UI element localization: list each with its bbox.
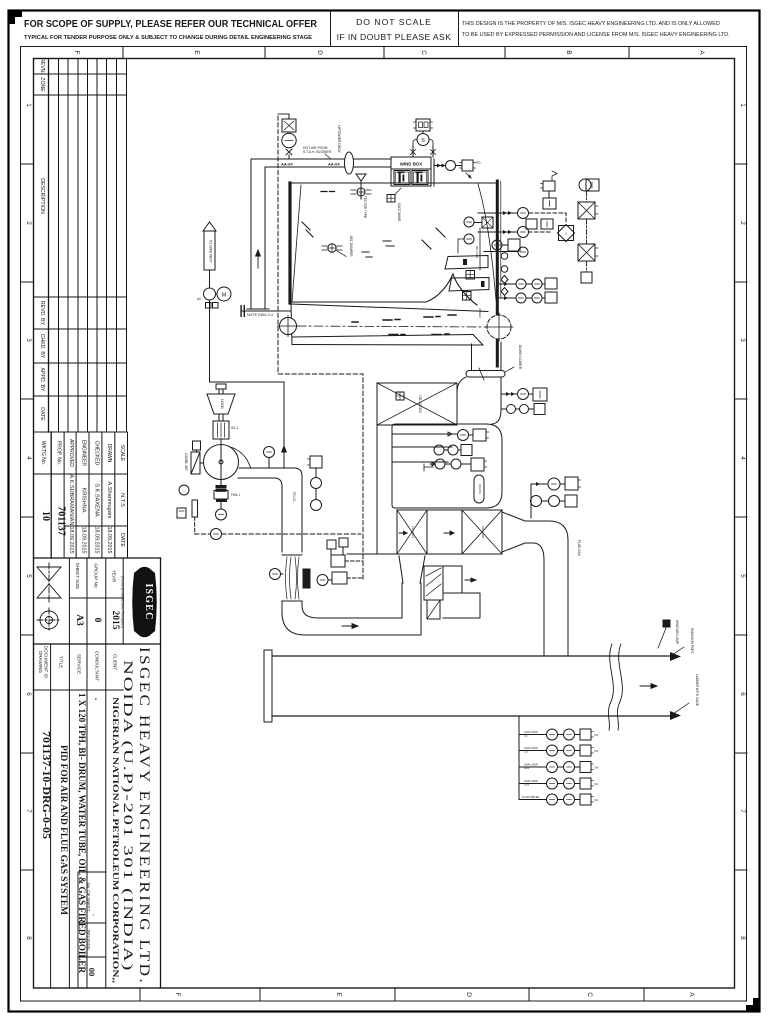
svg-text:18.09.2015: 18.09.2015 <box>106 527 112 554</box>
svg-text:IF IN DOUBT PLEASE ASK: IF IN DOUBT PLEASE ASK <box>337 32 452 42</box>
svg-text:FD-01: FD-01 <box>292 492 296 502</box>
interlock square X 2 <box>578 244 595 261</box>
svg-text:DA: DA <box>595 798 599 802</box>
SCAPH capsule <box>474 475 484 503</box>
instrument: furnace pressure circle a <box>464 217 474 227</box>
svg-text:NOTE DWG 2-4: NOTE DWG 2-4 <box>247 313 273 317</box>
downcomer from mud drum <box>500 342 502 371</box>
svg-text:F: F <box>73 51 80 55</box>
duct: blind branch to future (left drop) <box>250 159 252 309</box>
expansion joint on top duct <box>345 152 354 174</box>
svg-text:S.T.A.H. BLOWER: S.T.A.H. BLOWER <box>303 150 332 154</box>
instrument: lower-right row2 circles <box>507 405 516 414</box>
svg-text:B: B <box>565 50 572 54</box>
svg-text:1 X 120 TPH, BI- DRUM, WATER T: 1 X 120 TPH, BI- DRUM, WATER TUBE, OIL &… <box>77 693 87 973</box>
svg-text:SIL-1: SIL-1 <box>231 426 239 430</box>
air outlet duct lines <box>462 592 480 594</box>
instrument: furnace square a <box>482 217 493 228</box>
instrument: lower-right row2 square <box>534 404 545 415</box>
furnace left tube wall line <box>292 185 301 302</box>
expansion joint below boiler <box>466 371 505 378</box>
superheater bank box 1 <box>445 256 488 270</box>
title block column labels <box>38 646 118 682</box>
instrument: AH outlet row2 square <box>565 495 577 507</box>
node: valve positioner squares <box>206 303 212 309</box>
svg-text:(Formerly ISGEC John Thompson): (Formerly ISGEC John Thompson) <box>121 576 125 628</box>
right wall inner line <box>500 181 502 297</box>
svg-text:7: 7 <box>739 809 746 813</box>
svg-text:ANALYSER: ANALYSER <box>524 763 538 767</box>
instrument grid row 5 <box>519 799 547 801</box>
svg-text:1: 1 <box>739 103 746 107</box>
svg-text:ANALYSER: ANALYSER <box>524 779 538 783</box>
svg-text:S: S <box>421 138 425 144</box>
svg-text:DA: DA <box>595 733 599 737</box>
instrument: flag stem 2 <box>339 538 348 547</box>
burner box 2 <box>412 171 428 185</box>
instrument: row y284 square <box>545 278 557 289</box>
svg-text:DESCRIPTION: DESCRIPTION <box>39 178 45 214</box>
instrument: right col bottom square <box>581 272 592 283</box>
svg-text:LADDER WITH CAGE: LADDER WITH CAGE <box>695 674 699 706</box>
svg-text:A: A <box>698 50 705 55</box>
svg-text:SHEET SIZE: SHEET SIZE <box>75 563 80 590</box>
instrument: AH outlet row1 circle <box>548 478 560 490</box>
projection symbol <box>37 563 61 632</box>
svg-text:18.09.2015: 18.09.2015 <box>81 527 87 554</box>
air heater centre box <box>427 510 462 554</box>
signal: dashed line to silencer instruments <box>195 533 361 535</box>
instrument: AH row2 circles <box>434 445 444 455</box>
svg-text:4: 4 <box>25 456 32 460</box>
FD fan air inlet cap <box>216 384 226 389</box>
instrument: square B near silencer <box>332 572 347 584</box>
instrument: square 2 <box>548 191 550 198</box>
air heater internal lines <box>392 433 457 435</box>
svg-text:TITLE: TITLE <box>59 656 64 669</box>
svg-text:C: C <box>586 992 593 997</box>
sheet/revision boxes <box>86 883 97 977</box>
valve tick left <box>411 150 416 155</box>
diagonal tube sheet step <box>473 335 483 346</box>
svg-text:NOx: NOx <box>524 766 530 770</box>
burner box 1 <box>394 171 410 185</box>
svg-text:EMISSION PORT: EMISSION PORT <box>690 628 694 653</box>
FD fan inlet silencer <box>213 421 229 439</box>
corner mark top-left <box>9 11 22 24</box>
wall taps: small circles/diamonds <box>501 253 508 260</box>
svg-text:D: D <box>316 50 323 55</box>
instrument: top square with flag <box>543 181 555 191</box>
node: left stub end bars <box>240 305 241 317</box>
wind box <box>391 157 431 186</box>
wire: AH outlet leaders <box>531 484 548 518</box>
svg-text:DRAWN: DRAWN <box>106 444 112 463</box>
svg-text:DRAWING: DRAWING <box>38 651 43 673</box>
svg-text:PID FOR AIR AND FLUE GAS SYSTE: PID FOR AIR AND FLUE GAS SYSTEM <box>58 745 68 915</box>
instrument: purge square with wings <box>462 160 473 171</box>
air heater main box <box>392 424 502 508</box>
svg-text:SCAPH: SCAPH <box>478 484 482 494</box>
wire: flow arrow in bottom duct <box>342 624 358 629</box>
svg-text:NIGERIAN NATIONAL PETROLEUM CO: NIGERIAN NATIONAL PETROLEUM CORPORATION,… <box>111 697 121 983</box>
instrument grid row 4 <box>519 783 547 785</box>
svg-text:F: F <box>174 993 181 997</box>
svg-text:A.K.SUBRAMANIAN: A.K.SUBRAMANIAN <box>68 475 74 526</box>
superheater bank box 2 <box>449 278 489 292</box>
svg-text:GROUP No:: GROUP No: <box>94 563 99 588</box>
sootblower cross square 2 <box>463 292 472 301</box>
instrument: left gauge <box>179 485 189 495</box>
svg-text:M: M <box>222 293 227 299</box>
approvals values <box>40 475 125 554</box>
instrument: flag stem 1 <box>327 540 336 549</box>
svg-text:CONSULTANT: CONSULTANT <box>95 651 100 682</box>
svg-text:CHKD. BY: CHKD. BY <box>39 334 45 359</box>
stack cap <box>264 650 272 722</box>
svg-text:-: - <box>90 914 96 916</box>
instrument: small box far left <box>177 508 186 518</box>
svg-text:GD-102/103: GD-102/103 <box>418 395 422 413</box>
instrument: row y298 circle 1 <box>516 293 526 303</box>
svg-text:2: 2 <box>739 221 746 225</box>
svg-text:HOOD: HOOD <box>220 399 224 409</box>
wire: leader from wall 1 <box>478 212 518 214</box>
air heater element box X right <box>462 510 502 554</box>
instrument: circle near silencer <box>317 575 328 586</box>
svg-text:8: 8 <box>739 936 746 940</box>
wire: leader lower-right <box>501 393 518 395</box>
svg-text:8: 8 <box>25 936 32 940</box>
svg-text:AA-04: AA-04 <box>328 162 340 167</box>
instrument: AH row3 square <box>471 458 484 471</box>
instrument: circle at silencer left <box>270 569 281 580</box>
wire: leader from wall 2 <box>478 231 518 233</box>
wire: leader row y284 <box>499 283 516 285</box>
svg-text:UPTOWER DECK: UPTOWER DECK <box>337 125 341 153</box>
instrument: draft circle 2 <box>518 227 529 238</box>
interlock square X 1 <box>578 202 595 219</box>
left coordinate strip dividers <box>21 164 34 870</box>
bottom strip letters <box>174 992 695 997</box>
instrument: row y284 circle 2 <box>532 279 542 289</box>
svg-text:WKTG No.: WKTG No. <box>40 441 46 465</box>
tube group dashes lower <box>389 333 449 336</box>
instrument: AH row1 arrow+circle <box>443 432 452 436</box>
instrument: row y284 circle 1 <box>516 279 526 289</box>
svg-text:WIND BOX: WIND BOX <box>400 162 423 167</box>
FD fan motor coupling <box>216 486 226 488</box>
furnace tap: funnel symbol <box>356 174 366 181</box>
instrument: lower-right square <box>533 388 547 401</box>
svg-text:SOOT BLWR: SOOT BLWR <box>397 203 401 223</box>
svg-text:ISGEC: ISGEC <box>143 583 154 620</box>
instrument grid row 3 <box>519 766 547 768</box>
instrument: row y298 circle 2 <box>532 293 542 303</box>
instrument: AH outlet row1 square <box>565 477 578 490</box>
svg-text:DOCUMENT ID: DOCUMENT ID <box>44 646 49 679</box>
instrument: vent valve actuator circle <box>282 133 296 147</box>
svg-text:0: 0 <box>92 618 102 623</box>
svg-text:6: 6 <box>739 692 746 696</box>
signal: dashed to interlock diamond <box>529 213 566 224</box>
instrument: PI squares right of discharge <box>310 456 322 468</box>
svg-text:4: 4 <box>739 456 746 460</box>
svg-text:AV: AV <box>197 297 202 301</box>
mud drum (right) <box>487 315 511 339</box>
corner mark bottom-right <box>746 998 759 1011</box>
svg-text:A.Shanmugam: A.Shanmugam <box>106 481 112 518</box>
stack shell <box>272 655 670 657</box>
wire: wind box purge line right <box>434 165 446 167</box>
instrument: fan speed circle <box>216 509 227 520</box>
svg-text:FOR SCOPE OF SUPPLY, PLEASE RE: FOR SCOPE OF SUPPLY, PLEASE REFER OUR TE… <box>24 19 317 30</box>
duct: FD duct bottom run to air heater <box>282 601 421 635</box>
svg-text:FLOW METER: FLOW METER <box>522 795 539 799</box>
instrument: lower-right circle <box>518 389 529 400</box>
furnace bottom / nose <box>291 274 477 305</box>
furnace tap: crossed square <box>387 195 395 203</box>
instrument: AH row3 circles <box>435 459 445 469</box>
svg-text:1: 1 <box>25 103 32 107</box>
wire: flow arrow up on riser <box>282 446 287 452</box>
valve tick right <box>431 150 436 155</box>
svg-text:5: 5 <box>25 574 32 578</box>
svg-text:701137: 701137 <box>56 506 67 535</box>
svg-text:SCALE: SCALE <box>119 445 125 462</box>
svg-text:AH-101B: AH-101B <box>481 526 485 538</box>
air outlet box B <box>443 566 462 593</box>
aviation lamp <box>663 620 670 627</box>
signal: dash-dot down <box>586 191 588 202</box>
svg-text:YEAR: YEAR <box>112 570 117 583</box>
instrument: AH row2 square <box>461 445 472 456</box>
solenoid circle S <box>413 140 433 147</box>
right strip numbers <box>739 103 746 940</box>
svg-text:AH-101A: AH-101A <box>411 526 415 538</box>
revision table labels <box>39 58 45 421</box>
top coordinate strip dividers <box>123 47 629 59</box>
rear screen tube curve <box>478 184 496 300</box>
FD fan motor <box>214 491 228 500</box>
svg-text:ANALYSER: ANALYSER <box>524 746 538 750</box>
vent silencer assembly (left) <box>203 222 216 231</box>
wire: flow arrow up in branch <box>256 250 261 268</box>
steam drum (left) <box>280 318 297 335</box>
svg-text:A: A <box>688 992 695 997</box>
valve PV-1: vent control valve <box>278 113 289 115</box>
pipe: vent riser to FD discharge <box>210 300 285 468</box>
svg-text:00: 00 <box>87 968 97 977</box>
pressure gauge on discharge <box>264 447 275 458</box>
svg-text:SOx: SOx <box>524 783 530 787</box>
approvals table grid <box>34 432 161 558</box>
svg-text:NOIDA (U.P)-201 301 (INDIA): NOIDA (U.P)-201 301 (INDIA) <box>121 660 135 972</box>
title block header labels <box>75 563 117 590</box>
FD fan discharge duct <box>239 468 302 552</box>
air heater hopper <box>399 556 403 583</box>
svg-text:SEC DAMPER: SEC DAMPER <box>349 235 353 257</box>
sootblower cross square 1 <box>466 271 475 280</box>
svg-text:AA-04: AA-04 <box>281 162 293 167</box>
instrument: draft circle 1 <box>518 208 529 219</box>
svg-text:RISER: RISER <box>478 308 482 318</box>
svg-text:SERVICE: SERVICE <box>77 654 82 674</box>
svg-text:TECTOR TYPE: TECTOR TYPE <box>363 196 367 218</box>
air outlet lower damper <box>427 600 440 619</box>
instrument grid row 2 <box>519 750 547 752</box>
top strip letters <box>73 50 705 55</box>
wire: flow arrow in stack <box>640 684 657 689</box>
boiler bank bottom boundary <box>292 335 473 338</box>
svg-text:REVN.: REVN. <box>39 58 45 74</box>
svg-text:2015: 2015 <box>110 611 120 630</box>
wire: leader row y298 <box>499 297 516 299</box>
svg-text:No. OF SHEET: No. OF SHEET <box>86 883 91 912</box>
svg-text:DA: DA <box>595 782 599 786</box>
svg-text:DO NOT SCALE: DO NOT SCALE <box>356 17 432 27</box>
svg-text:2: 2 <box>25 221 32 225</box>
svg-text:I: I <box>565 231 566 236</box>
damper positioner block <box>192 500 198 517</box>
instrument: right col circle+square <box>579 179 591 191</box>
gas damper box with X <box>377 383 457 425</box>
svg-text:DATE: DATE <box>119 533 125 547</box>
svg-text:CLIENT: CLIENT <box>113 654 118 671</box>
svg-text:OIL GUN: OIL GUN <box>475 246 479 258</box>
title block values <box>40 647 152 985</box>
svg-text:701137-10-DRG-0-05: 701137-10-DRG-0-05 <box>40 731 51 839</box>
line: air heater inlet run <box>347 553 397 555</box>
instrument: draft circle 3 <box>518 247 528 257</box>
svg-text:TO SAFE VENT: TO SAFE VENT <box>209 240 213 263</box>
valve: vent isolation valve <box>204 288 216 300</box>
signal: dash-dot to bottom square <box>586 261 588 272</box>
svg-text:APPD. BY: APPD. BY <box>39 368 45 392</box>
svg-text:3: 3 <box>739 338 746 342</box>
svg-text:ENGINEER: ENGINEER <box>81 440 87 467</box>
duct: riser into air heater hopper <box>401 583 403 618</box>
svg-text:DA: DA <box>595 766 599 770</box>
svg-text:CHECKED: CHECKED <box>94 441 100 466</box>
svg-text:DOWN COMER: DOWN COMER <box>518 345 522 370</box>
valve glyph below actuator <box>286 149 292 155</box>
svg-text:ANALYSER: ANALYSER <box>524 730 538 734</box>
svg-text:APPROVED: APPROVED <box>68 439 74 467</box>
instrument: square m1 <box>526 219 537 229</box>
svg-text:KRISHNA: KRISHNA <box>81 488 87 513</box>
svg-text:ZONE: ZONE <box>39 77 45 92</box>
svg-text:7: 7 <box>25 809 32 813</box>
left casing wall <box>376 425 378 554</box>
svg-text:AVIATION LAMP: AVIATION LAMP <box>675 620 679 644</box>
furnace flame hatches <box>302 222 313 237</box>
tube group dashes upper <box>352 315 456 322</box>
wire: arrow right of damper <box>465 578 476 582</box>
label: black tag plate <box>303 569 310 588</box>
instrument: row y298 square <box>545 292 557 303</box>
svg-text:3: 3 <box>25 338 32 342</box>
instrument: furnace pressure circle b <box>464 234 474 244</box>
boiler right wall (thick) <box>496 181 499 366</box>
svg-text:N.T.S: N.T.S <box>119 493 125 507</box>
header divider lines <box>330 11 332 46</box>
title block grid <box>34 558 161 988</box>
svg-text:-: - <box>92 698 102 701</box>
svg-text:A3: A3 <box>74 614 84 626</box>
instrument: AH row1 square <box>473 429 486 441</box>
stack break lines <box>608 644 613 730</box>
svg-text:DA: DA <box>595 749 599 753</box>
instrument: square A near silencer <box>331 555 345 567</box>
svg-text:E: E <box>193 50 200 54</box>
damper: FD inlet damper <box>191 452 200 474</box>
svg-text:REVD. BY: REVD. BY <box>39 301 45 326</box>
svg-text:PROP. No.: PROP. No. <box>56 441 62 465</box>
approvals labels <box>40 439 125 467</box>
svg-text:5: 5 <box>739 574 746 578</box>
svg-text:DATE: DATE <box>39 407 45 421</box>
instrument: AH outlet row2 circles <box>531 496 542 507</box>
FD fan (centrifugal) <box>204 445 239 480</box>
inline silencer on discharge drop <box>282 554 302 556</box>
svg-text:REVISION: REVISION <box>86 930 91 950</box>
boiler furnace left wall (thick) <box>288 183 291 303</box>
instrument: purge circle <box>446 161 456 171</box>
instrument: furnace pressure circle c <box>492 240 502 250</box>
interlock diamond (square rotated) <box>558 225 575 242</box>
tap square on damper <box>396 392 404 400</box>
motor M: vent valve motor <box>217 287 231 301</box>
instrument: PT circle <box>311 478 322 489</box>
instrument: square above solenoid <box>416 119 430 131</box>
svg-text:C: C <box>420 50 427 55</box>
burner target symbol <box>328 244 336 252</box>
boiler bank top boundary <box>291 304 488 312</box>
air heater element box X left <box>397 510 427 554</box>
drum centreline dash-dot <box>297 326 488 327</box>
svg-text:COMB. AIR: COMB. AIR <box>184 453 188 471</box>
svg-text:FAN-1: FAN-1 <box>231 493 240 497</box>
svg-text:S.K.SAXENA: S.K.SAXENA <box>94 483 100 517</box>
instrument: PI circle <box>311 500 322 511</box>
svg-text:10: 10 <box>40 511 51 521</box>
boiler top line <box>292 182 497 184</box>
svg-text:6: 6 <box>25 692 32 696</box>
flue transition to stack duct <box>502 512 568 656</box>
svg-text:THIS DESIGN IS THE PROPERTY OF: THIS DESIGN IS THE PROPERTY OF M/S. ISGE… <box>462 21 720 27</box>
instrument grid row 1 <box>519 734 547 736</box>
FD fan inlet hood <box>207 394 235 414</box>
svg-text:CO: CO <box>524 750 528 754</box>
left strip numbers <box>25 103 32 940</box>
signal: dash-dot between interlocks <box>586 219 588 244</box>
isgec logo <box>121 567 157 638</box>
stack instrument feeder <box>518 716 520 800</box>
svg-text:18.09.2015: 18.09.2015 <box>94 527 100 554</box>
air outlet damper assembly <box>424 566 443 600</box>
svg-text:FLUE GAS: FLUE GAS <box>577 540 581 556</box>
svg-text:TYPICAL FOR TENDER PURPOSE ONL: TYPICAL FOR TENDER PURPOSE ONLY & SUBJEC… <box>24 35 312 41</box>
duct: FD outlet air duct to wind box (top run) <box>251 158 391 160</box>
steam lines up to S-valve <box>412 146 414 157</box>
wind box right double wall <box>430 157 432 186</box>
svg-text:D: D <box>465 992 472 997</box>
connector line <box>479 228 481 270</box>
right coordinate strip dividers <box>735 164 748 870</box>
svg-text:PG: PG <box>476 161 481 165</box>
bottom coordinate strip dividers <box>140 988 644 1001</box>
